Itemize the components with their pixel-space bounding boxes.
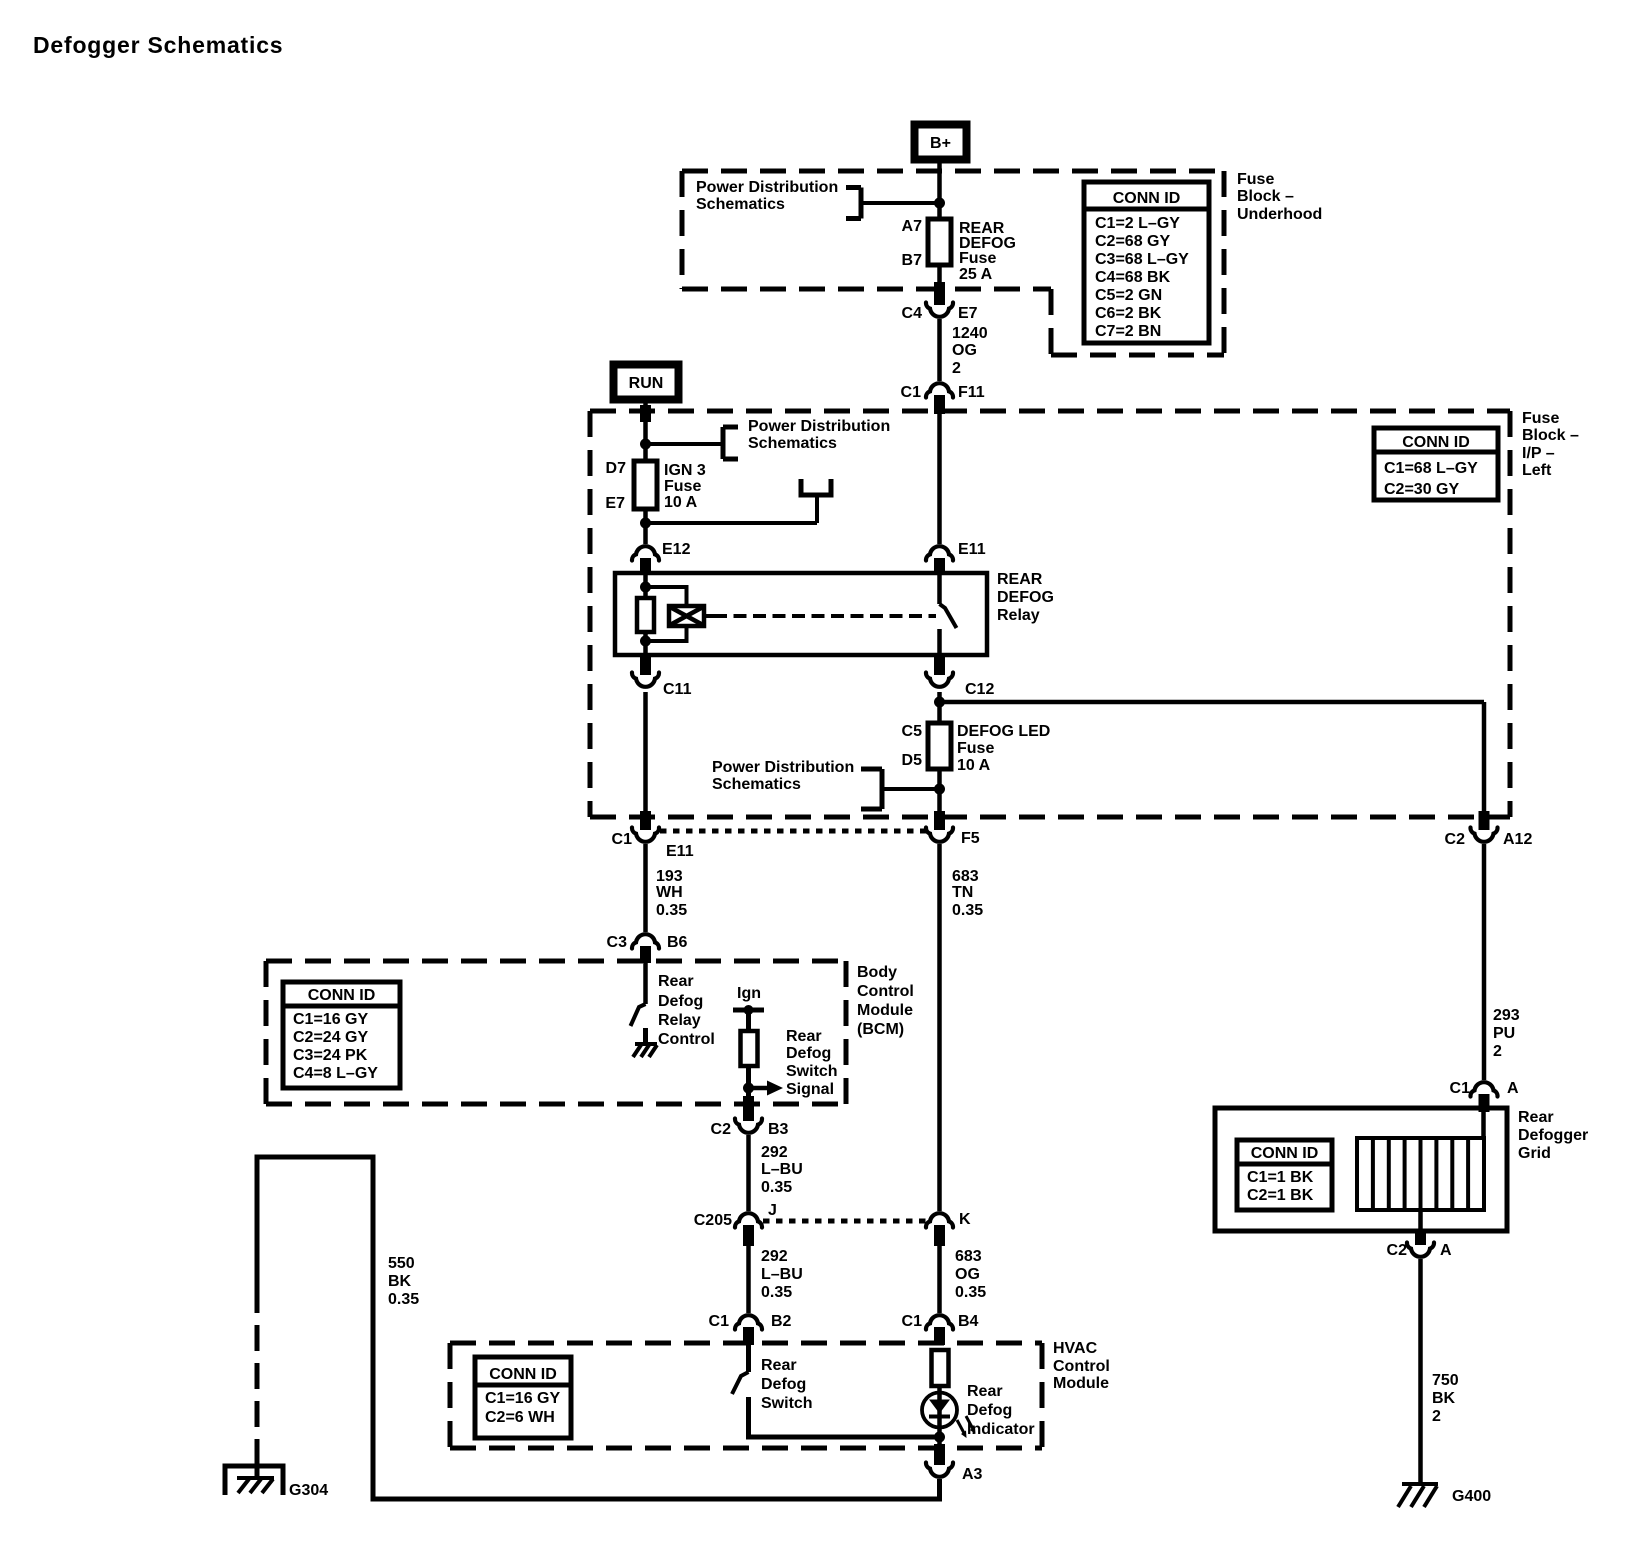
svg-text:I/P –: I/P – <box>1522 445 1555 462</box>
svg-text:Power Distribution: Power Distribution <box>696 179 838 196</box>
svg-text:Fuse: Fuse <box>957 740 994 757</box>
svg-text:Schematics: Schematics <box>712 776 801 793</box>
svg-text:Schematics: Schematics <box>696 196 785 213</box>
svg-text:0.35: 0.35 <box>952 902 983 919</box>
svg-text:E11: E11 <box>958 541 986 558</box>
svg-text:HVAC: HVAC <box>1053 1340 1098 1357</box>
fuse IGN 3 10A <box>634 461 657 509</box>
ground G304 symbol <box>237 1478 274 1493</box>
relay REAR DEFOG box <box>615 573 987 655</box>
svg-text:C1=2 L–GY: C1=2 L–GY <box>1095 215 1180 232</box>
svg-text:193: 193 <box>656 868 683 885</box>
pin stub C3/B6 <box>640 946 651 963</box>
relay coil X-box <box>669 606 704 626</box>
svg-text:2: 2 <box>1432 1408 1441 1425</box>
node: ign3 bottom branch <box>640 518 651 529</box>
svg-text:CONN ID: CONN ID <box>1113 190 1181 207</box>
bracket callout (power distribution schematics, ign3) <box>723 427 738 459</box>
svg-text:C2: C2 <box>1445 831 1466 848</box>
svg-text:A12: A12 <box>1503 831 1532 848</box>
svg-text:C1=16 GY: C1=16 GY <box>485 1390 560 1407</box>
LED triangle <box>929 1400 950 1414</box>
wire below coil <box>643 632 648 655</box>
wire 193 WH down to BCM <box>643 844 648 932</box>
coil parallel branch <box>646 587 687 641</box>
RUN terminal box <box>614 365 679 400</box>
svg-text:C1: C1 <box>901 384 922 401</box>
svg-text:Control: Control <box>857 983 914 1000</box>
svg-text:J: J <box>768 1202 777 1219</box>
svg-text:Block –: Block – <box>1522 427 1579 444</box>
wire below ign3 fuse <box>643 509 648 544</box>
svg-text:Body: Body <box>857 964 897 981</box>
svg-text:A7: A7 <box>902 218 923 235</box>
svg-text:C2=68 GY: C2=68 GY <box>1095 233 1170 250</box>
pin stub E11 <box>934 558 945 575</box>
svg-text:750: 750 <box>1432 1372 1459 1389</box>
svg-text:Fuse: Fuse <box>1237 171 1274 188</box>
svg-text:Signal: Signal <box>786 1081 834 1098</box>
relay coil element <box>637 598 654 632</box>
svg-text:0.35: 0.35 <box>388 1291 419 1308</box>
svg-text:B3: B3 <box>768 1121 789 1138</box>
svg-text:TN: TN <box>952 884 973 901</box>
svg-text:F5: F5 <box>961 830 980 847</box>
pin stub C1/E11 <box>640 811 651 830</box>
wire branch right to A12 <box>940 700 1485 705</box>
svg-text:C1: C1 <box>902 1313 923 1330</box>
svg-text:2: 2 <box>952 360 961 377</box>
LED light arrows <box>957 1416 973 1433</box>
svg-text:Defog: Defog <box>658 993 703 1010</box>
node: power distribution branch (underhood) <box>934 198 945 209</box>
svg-text:Defogger: Defogger <box>1518 1127 1588 1144</box>
dotted connector line C1-F5 <box>660 829 926 834</box>
svg-text:L–BU: L–BU <box>761 1161 803 1178</box>
svg-text:Defog: Defog <box>786 1045 831 1062</box>
conn id table BCM <box>283 982 400 1088</box>
svg-text:G400: G400 <box>1452 1488 1491 1505</box>
svg-text:BK: BK <box>388 1273 412 1290</box>
svg-text:C3=24 PK: C3=24 PK <box>293 1047 368 1064</box>
svg-text:C2=30 GY: C2=30 GY <box>1384 481 1459 498</box>
connector C1/A cup <box>1470 1082 1497 1096</box>
connector C1/F11 cup <box>926 383 953 397</box>
node indicator/switch junction <box>934 1432 945 1443</box>
svg-text:C4=8 L–GY: C4=8 L–GY <box>293 1065 378 1082</box>
svg-text:C1: C1 <box>1450 1080 1471 1097</box>
ground G400 symbol <box>1398 1484 1438 1507</box>
wire fuse to connector <box>937 265 942 284</box>
svg-text:E11: E11 <box>666 843 694 860</box>
svg-text:E7: E7 <box>605 495 625 512</box>
wire C11 down to boundary <box>643 692 648 813</box>
svg-text:10 A: 10 A <box>957 757 991 774</box>
pin stub A3 <box>934 1444 945 1465</box>
relay switch contact (top) <box>937 573 942 604</box>
pin stub C4/E7 <box>934 282 945 305</box>
bracket callout (power distribution schematics, underhood) <box>846 188 861 219</box>
node: ign3 top branch <box>640 439 651 450</box>
conn id table underhood <box>1084 182 1209 343</box>
U bracket callout <box>801 479 831 495</box>
svg-text:Relay: Relay <box>658 1012 701 1029</box>
svg-text:293: 293 <box>1493 1007 1520 1024</box>
svg-text:Fuse: Fuse <box>1522 410 1559 427</box>
svg-text:BK: BK <box>1432 1390 1456 1407</box>
wire branch to bracket4 <box>882 787 940 791</box>
B+ terminal box <box>915 125 967 160</box>
pin stub C2/B3 <box>743 1096 754 1121</box>
BCM relay-control switch blade <box>631 1004 646 1026</box>
pin stub C11 <box>640 655 651 675</box>
svg-text:B2: B2 <box>771 1313 792 1330</box>
rear defog indicator resistor <box>932 1350 949 1386</box>
Ign tee <box>733 1008 764 1013</box>
svg-text:B4: B4 <box>958 1313 979 1330</box>
svg-text:C6=2 BK: C6=2 BK <box>1095 305 1162 322</box>
svg-text:C5=2 GN: C5=2 GN <box>1095 287 1162 304</box>
svg-text:Rear: Rear <box>786 1028 822 1045</box>
pin stub C12 <box>934 655 945 675</box>
wire grid to C2/A <box>1418 1210 1423 1233</box>
rear defog switch wire <box>746 1345 751 1372</box>
wire down from junction <box>937 1437 942 1446</box>
svg-text:IGN 3: IGN 3 <box>664 462 706 479</box>
wire into grid element <box>1481 1112 1486 1140</box>
svg-text:G304: G304 <box>289 1482 328 1499</box>
svg-text:Defogger Schematics: Defogger Schematics <box>33 32 283 58</box>
relay switch contact (bottom) <box>937 629 942 655</box>
svg-text:F11: F11 <box>958 384 985 401</box>
svg-text:C12: C12 <box>965 681 994 698</box>
svg-text:Rear: Rear <box>967 1383 1003 1400</box>
svg-text:E12: E12 <box>662 541 691 558</box>
connector C1/B4 cup <box>926 1315 953 1329</box>
svg-text:1240: 1240 <box>952 325 988 342</box>
wire 292 L-BU <box>746 1135 751 1211</box>
connector E12 cup <box>632 546 659 560</box>
LED circle <box>922 1393 957 1428</box>
fuse DEFOG LED 10A <box>928 723 951 769</box>
svg-text:C5: C5 <box>902 723 923 740</box>
node coil top <box>640 582 651 593</box>
wire ign down <box>746 1010 751 1031</box>
rear defog switch blade <box>732 1372 749 1394</box>
svg-text:C1: C1 <box>709 1313 730 1330</box>
wire 683 OG lower <box>937 1246 942 1313</box>
wire below defog led fuse <box>937 769 942 813</box>
svg-text:Fuse: Fuse <box>959 250 996 267</box>
pin stub C2/A <box>1415 1231 1426 1245</box>
svg-text:0.35: 0.35 <box>656 902 687 919</box>
pin stub C1/F11 <box>934 395 945 414</box>
pin stub at RUN entry <box>640 405 651 422</box>
svg-text:WH: WH <box>656 884 683 901</box>
node defog led branch <box>934 697 945 708</box>
bracket callout (power distribution schematics, defog led) <box>861 769 882 809</box>
svg-text:DEFOG: DEFOG <box>997 589 1054 606</box>
svg-text:Defog: Defog <box>967 1402 1012 1419</box>
dashed ground wire 550 BK <box>255 1287 260 1465</box>
svg-text:B6: B6 <box>667 934 688 951</box>
connector C11 cup <box>632 673 659 687</box>
relay switch blade <box>940 604 957 628</box>
pin stub K <box>934 1225 945 1246</box>
svg-text:E7: E7 <box>958 305 978 322</box>
wire branch to U-bracket <box>646 521 818 525</box>
svg-text:L–BU: L–BU <box>761 1266 803 1283</box>
wire into relay coil <box>643 573 648 598</box>
wire F5 down to K <box>937 844 942 1211</box>
conn id table grid <box>1237 1140 1332 1210</box>
svg-text:550: 550 <box>388 1255 415 1272</box>
node power dist branch (defog led) <box>934 784 945 795</box>
svg-text:C2: C2 <box>711 1121 732 1138</box>
svg-text:B+: B+ <box>930 135 951 152</box>
svg-text:Relay: Relay <box>997 607 1040 624</box>
svg-text:25 A: 25 A <box>959 266 993 283</box>
pin stub C1/B4 <box>934 1327 945 1345</box>
fuse F1 REAR DEFOG 25A <box>928 219 951 265</box>
relay actuation dashed link <box>704 614 714 618</box>
pin stub C1/A <box>1479 1094 1490 1112</box>
rear defogger grid box <box>1215 1108 1507 1231</box>
svg-text:10 A: 10 A <box>664 494 698 511</box>
svg-text:B7: B7 <box>902 252 923 269</box>
LED cathode bar <box>929 1415 950 1419</box>
svg-text:OG: OG <box>955 1266 980 1283</box>
connector C2/B3 cup <box>735 1119 762 1133</box>
svg-text:C2=1 BK: C2=1 BK <box>1247 1187 1314 1204</box>
wire branch to bracket <box>861 201 940 205</box>
svg-text:0.35: 0.35 <box>761 1179 792 1196</box>
connector C2/A12 cup <box>1470 828 1497 842</box>
svg-text:0.35: 0.35 <box>761 1284 792 1301</box>
pin stub C1/B2 <box>743 1327 754 1345</box>
wire B+ down to fuse <box>937 163 942 221</box>
connector C4/E7 cup <box>926 303 953 317</box>
wire 1240 OG 2 <box>937 319 942 381</box>
svg-text:Switch: Switch <box>786 1063 838 1080</box>
svg-text:A3: A3 <box>962 1466 983 1483</box>
svg-text:Switch: Switch <box>761 1395 813 1412</box>
svg-text:C4=68 BK: C4=68 BK <box>1095 269 1171 286</box>
fuse block underhood dashed box <box>682 171 1224 355</box>
pin stub C205/J <box>743 1225 754 1246</box>
wire C12 down <box>937 692 942 723</box>
svg-text:Underhood: Underhood <box>1237 206 1322 223</box>
svg-text:C2=24 GY: C2=24 GY <box>293 1029 368 1046</box>
svg-text:Control: Control <box>1053 1358 1110 1375</box>
svg-text:REAR: REAR <box>997 571 1043 588</box>
svg-text:D5: D5 <box>902 752 923 769</box>
BCM internal ground <box>633 1044 657 1057</box>
svg-text:Power Distribution: Power Distribution <box>712 759 854 776</box>
svg-text:K: K <box>959 1211 971 1228</box>
wire branch to bracket2 <box>646 442 724 446</box>
svg-text:Module: Module <box>1053 1375 1109 1392</box>
conn id table I/P <box>1374 428 1498 500</box>
svg-text:OG: OG <box>952 342 977 359</box>
node switch signal <box>743 1083 754 1094</box>
connector C1/B2 cup <box>735 1315 762 1329</box>
svg-text:CONN ID: CONN ID <box>489 1366 557 1383</box>
pin stub F5 <box>934 811 945 830</box>
svg-text:Schematics: Schematics <box>748 435 837 452</box>
svg-text:Defog: Defog <box>761 1376 806 1393</box>
svg-text:RUN: RUN <box>629 375 664 392</box>
wire F11 to E11 <box>937 414 942 544</box>
connector C12 cup <box>926 673 953 687</box>
pin stub C2/A12 <box>1479 811 1490 830</box>
svg-text:2: 2 <box>1493 1043 1502 1060</box>
svg-text:CONN ID: CONN ID <box>308 987 376 1004</box>
svg-text:C7=2 BN: C7=2 BN <box>1095 323 1161 340</box>
wire resistor to LED <box>937 1386 942 1437</box>
BCM dashed box <box>266 961 846 1104</box>
wire into BCM switch <box>643 963 648 1004</box>
fuse block I/P dashed box <box>590 411 1510 817</box>
svg-text:C1=1 BK: C1=1 BK <box>1247 1169 1314 1186</box>
node coil bottom <box>640 636 651 647</box>
wire 292 lower <box>746 1246 751 1313</box>
svg-text:(BCM): (BCM) <box>857 1021 904 1038</box>
svg-text:A: A <box>1507 1080 1519 1097</box>
connector C2/A cup <box>1407 1243 1434 1257</box>
wire A3 to ground run <box>257 1157 940 1499</box>
svg-text:C3: C3 <box>607 934 628 951</box>
svg-text:Block –: Block – <box>1237 188 1294 205</box>
wire 293 PU down to C1/A <box>1482 844 1487 1080</box>
svg-text:C1: C1 <box>612 831 633 848</box>
svg-text:292: 292 <box>761 1144 788 1161</box>
BCM switch lower contact <box>643 1028 648 1044</box>
svg-text:292: 292 <box>761 1248 788 1265</box>
svg-text:A: A <box>1440 1242 1452 1259</box>
svg-text:C2: C2 <box>1387 1242 1408 1259</box>
grid element <box>1357 1138 1484 1210</box>
svg-text:D7: D7 <box>606 460 627 477</box>
svg-text:PU: PU <box>1493 1025 1515 1042</box>
svg-text:C3=68 L–GY: C3=68 L–GY <box>1095 251 1189 268</box>
svg-text:683: 683 <box>955 1248 982 1265</box>
svg-text:CONN ID: CONN ID <box>1251 1145 1319 1162</box>
switch signal arrow <box>749 1086 769 1091</box>
svg-text:C205: C205 <box>694 1212 732 1229</box>
HVAC dashed box <box>450 1343 1042 1448</box>
svg-text:Fuse: Fuse <box>664 478 701 495</box>
svg-text:Ign: Ign <box>737 985 761 1002</box>
ground G304 bracket <box>225 1466 283 1495</box>
svg-text:DEFOG LED: DEFOG LED <box>957 723 1050 740</box>
svg-text:Control: Control <box>658 1031 715 1048</box>
svg-text:0.35: 0.35 <box>955 1284 986 1301</box>
connector C3/B6 cup <box>632 934 659 948</box>
svg-text:Left: Left <box>1522 462 1552 479</box>
BCM pull-up resistor <box>741 1031 758 1066</box>
svg-text:Module: Module <box>857 1002 913 1019</box>
svg-text:C1=68 L–GY: C1=68 L–GY <box>1384 460 1478 477</box>
svg-text:C11: C11 <box>663 681 692 698</box>
svg-text:C1=16 GY: C1=16 GY <box>293 1011 368 1028</box>
connector C1/E11 cup <box>632 828 659 842</box>
rear defog switch lower contact <box>749 1397 940 1437</box>
wire below resistor <box>746 1066 751 1098</box>
wire RUN down <box>643 400 648 461</box>
connector E11 cup <box>926 546 953 560</box>
svg-text:Power Distribution: Power Distribution <box>748 418 890 435</box>
connector A3 cup <box>926 1463 953 1477</box>
svg-text:C4: C4 <box>902 305 923 322</box>
wire 750 BK to G400 <box>1418 1259 1423 1484</box>
connector F5 cup <box>926 828 953 842</box>
connector K cup <box>926 1213 953 1227</box>
conn id table HVAC <box>475 1357 571 1438</box>
dotted connector line J-K <box>763 1219 926 1224</box>
svg-text:Rear: Rear <box>658 973 694 990</box>
svg-text:Grid: Grid <box>1518 1145 1551 1162</box>
connector C205/J cup <box>735 1213 762 1227</box>
svg-text:Indicator: Indicator <box>967 1421 1035 1438</box>
svg-text:Rear: Rear <box>761 1357 797 1374</box>
svg-text:Rear: Rear <box>1518 1109 1554 1126</box>
svg-text:CONN ID: CONN ID <box>1402 434 1470 451</box>
pin stub E12 <box>640 558 651 575</box>
svg-text:C2=6 WH: C2=6 WH <box>485 1409 555 1426</box>
svg-text:683: 683 <box>952 868 979 885</box>
